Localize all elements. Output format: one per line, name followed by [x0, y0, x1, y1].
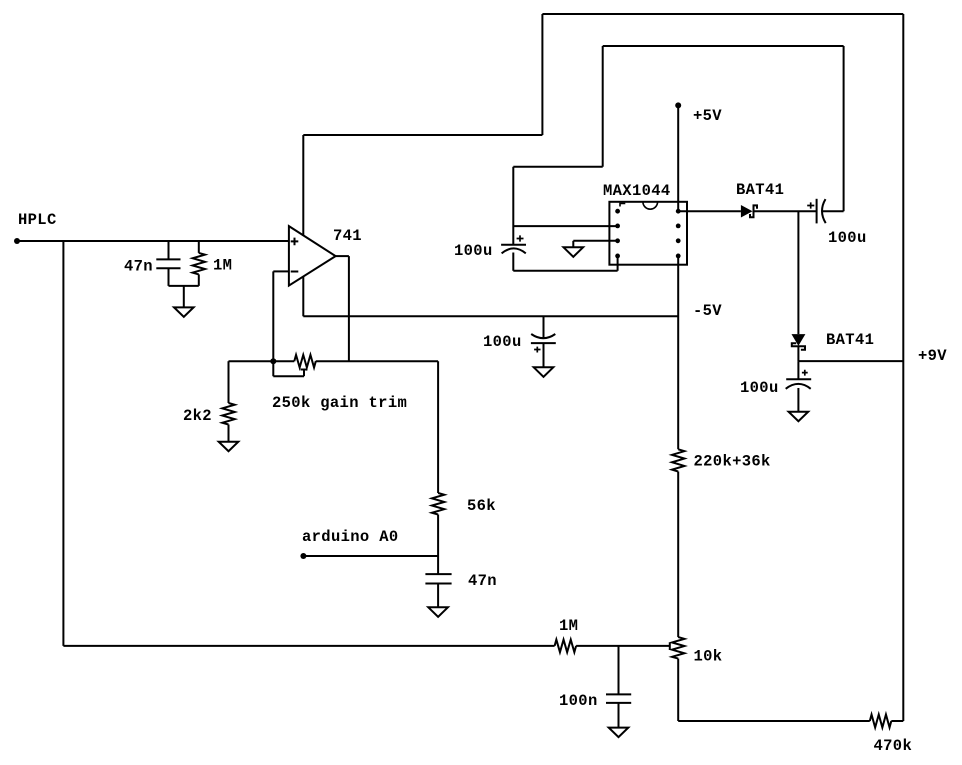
potentiometer R_trim 250k zigzag	[294, 355, 316, 368]
capacitor C5 100u plus sign	[802, 370, 808, 376]
capacitor C7 100n plates	[606, 694, 631, 703]
capacitor C3 100u pump straight plate	[501, 244, 526, 246]
svg-text:BAT41: BAT41	[826, 331, 874, 349]
svg-text:220k+36k: 220k+36k	[694, 452, 771, 470]
wire wiper return to junction	[273, 375, 304, 377]
svg-text:100u: 100u	[740, 379, 779, 397]
wire pin4 stub up	[617, 256, 619, 271]
resistor R_in 1M stub top	[198, 241, 200, 253]
node +5V terminal	[675, 102, 681, 108]
wire 2k2 branch vertical	[228, 361, 230, 403]
potentiometer R_trim wiper tick	[301, 369, 308, 371]
capacitor C6 100u curved plate	[531, 334, 555, 338]
wire HPLC input rail	[17, 240, 289, 242]
svg-text:741: 741	[333, 227, 362, 245]
wire left vertical drop to bottom rail	[62, 241, 64, 646]
ground 47n output	[428, 607, 448, 617]
wire pin8 to diode D1	[678, 210, 741, 212]
capacitor C2 47n plates	[425, 574, 451, 583]
resistor R7 1M zigzag	[555, 640, 576, 653]
svg-text:+5V: +5V	[693, 107, 722, 125]
op-amp U1 741 triangle	[289, 226, 336, 286]
wire outer right rail	[902, 14, 904, 721]
IC pin dots left	[615, 209, 620, 214]
svg-text:MAX1044: MAX1044	[603, 182, 671, 200]
svg-text:+9V: +9V	[918, 347, 947, 365]
wire outer top rail	[542, 13, 903, 15]
node feedback junction dot	[270, 358, 276, 364]
svg-text:100n: 100n	[559, 692, 598, 710]
capacitor C6 100u straight plate	[531, 342, 556, 344]
potentiometer R_trim wiper stem	[303, 370, 305, 377]
svg-text:BAT41: BAT41	[736, 181, 784, 199]
svg-text:-5V: -5V	[693, 302, 722, 320]
wire bottom rail right	[678, 720, 870, 722]
capacitor C5 100u curved plate	[786, 384, 811, 389]
wire +9V rail	[798, 360, 903, 362]
wire op-amp V- pin down	[302, 277, 304, 317]
wire inner loop rail y166	[513, 166, 602, 168]
diode D1 BAT41 triangle	[741, 205, 753, 218]
wire minus input vertical down	[272, 271, 274, 376]
svg-text:10k: 10k	[694, 648, 723, 666]
wire stub to input ground	[183, 286, 185, 308]
wire arduino A0	[303, 555, 438, 557]
potentiometer R6 10k zigzag	[672, 637, 684, 658]
wire D1 to C4	[754, 210, 817, 212]
ground C5	[789, 412, 809, 422]
IC pin dots right	[676, 209, 681, 214]
capacitor C4 100u curved plate	[822, 199, 826, 223]
wire -5V rail	[303, 315, 678, 317]
capacitor C4 100u straight plate	[816, 199, 818, 224]
IC notch	[643, 202, 658, 209]
wire pump cap bottom stub	[512, 253, 514, 271]
resistor R_in 1M stub bottom	[198, 274, 200, 286]
op-amp minus input symbol	[291, 271, 299, 273]
wire pin3 to ground	[573, 240, 617, 242]
resistor R8 470k zigzag	[870, 715, 891, 728]
IC U2 MAX1044 body	[609, 202, 687, 265]
wire 56k branch vertical	[437, 361, 439, 493]
wire output vertical down to feedback line	[348, 256, 350, 361]
wire op-amp minus input left	[273, 270, 289, 272]
IC pin1 mark	[620, 203, 625, 206]
wire pin3 ground drop	[572, 241, 574, 248]
svg-text:1M: 1M	[213, 257, 232, 275]
op-amp plus input symbol	[291, 238, 299, 246]
ground 100n	[609, 728, 629, 738]
ground C6	[534, 367, 554, 377]
wire C4 to right loop	[823, 210, 844, 212]
capacitor C4 100u plus sign	[807, 202, 814, 208]
capacitor C3 100u pump plus sign	[517, 235, 524, 241]
wire 56k down through A0 junction	[437, 515, 439, 575]
capacitor C7 100n stub	[618, 646, 620, 695]
ground input network	[174, 307, 194, 317]
svg-text:470k: 470k	[874, 737, 913, 755]
svg-text:HPLC: HPLC	[18, 211, 57, 229]
svg-text:2k2: 2k2	[183, 407, 212, 425]
wire pump cap bottom to pin4	[513, 270, 617, 272]
wire joining C_in and R_in bottoms	[169, 285, 199, 287]
resistor R_in 1M zigzag	[193, 253, 205, 275]
wire C6 to ground	[543, 343, 545, 367]
wire pump cap top vertical	[512, 167, 514, 245]
wire C5 to ground	[797, 388, 799, 412]
wire pin2 to pump cap	[513, 225, 617, 227]
capacitor C5 100u straight plate	[786, 378, 811, 380]
wire 2k2 to ground	[228, 425, 230, 442]
capacitor C_in 47n stub top	[168, 241, 170, 259]
svg-text:250k gain trim: 250k gain trim	[272, 394, 407, 412]
wire 470k to right rail	[891, 720, 903, 722]
svg-text:100u: 100u	[454, 242, 493, 260]
potentiometer R6 wiper tick	[669, 643, 671, 650]
capacitor C3 100u pump curved plate	[502, 248, 526, 253]
diode D2 BAT41 schottky bar	[792, 343, 805, 350]
resistor R5 220k+36k zigzag	[672, 449, 684, 471]
node HPLC terminal	[14, 238, 20, 244]
wire bottom rail left	[63, 645, 554, 647]
capacitor C_in 47n stub bottom	[168, 268, 170, 286]
wire top-left rail horizontal	[303, 134, 542, 136]
wire D1 junction down to D2	[797, 211, 799, 334]
wire 1M to pot wiper	[576, 645, 670, 647]
capacitor C6 100u plus sign	[534, 347, 540, 353]
diode D1 BAT41 schottky bar	[750, 205, 757, 217]
svg-text:47n: 47n	[124, 258, 153, 276]
wire 220k to pot	[677, 472, 679, 638]
ground 2k2	[219, 442, 239, 452]
svg-text:100u: 100u	[483, 333, 522, 351]
wire feedback line left of pot	[229, 360, 295, 362]
svg-text:arduino A0: arduino A0	[302, 528, 399, 546]
svg-text:47n: 47n	[468, 572, 497, 590]
wire 47n to ground	[437, 584, 439, 608]
wire inner loop rail y46	[603, 45, 844, 47]
wire 100n to ground	[618, 703, 620, 728]
wire pot bottom down	[677, 659, 679, 721]
resistor R3 2k2 zigzag	[222, 403, 234, 425]
wire feedback line right of pot	[316, 360, 438, 362]
capacitor C6 100u minus5 stub	[543, 316, 545, 337]
node arduino A0 terminal	[300, 553, 306, 559]
wire D2 to +9V junction	[797, 346, 799, 361]
wire right loop vertical down from rail y46	[843, 46, 845, 211]
capacitor C5 100u stub	[797, 361, 799, 379]
capacitor C_in 47n plates	[156, 259, 180, 268]
wire op-amp output	[336, 255, 349, 257]
svg-text:1M: 1M	[559, 617, 578, 635]
diode D2 BAT41 triangle	[792, 334, 806, 346]
ground pin3	[564, 247, 584, 256]
wire top-left rail vertical	[541, 14, 543, 135]
wire +5V down to pin 8	[677, 105, 679, 211]
svg-text:100u: 100u	[828, 229, 867, 247]
svg-text:56k: 56k	[467, 497, 496, 515]
wire op-amp V+ pin up	[302, 135, 304, 236]
wire inner loop left vertical	[602, 46, 604, 167]
wire pin5 down through -5V rail to 220k	[677, 256, 679, 449]
resistor R4 56k zigzag	[432, 493, 444, 515]
